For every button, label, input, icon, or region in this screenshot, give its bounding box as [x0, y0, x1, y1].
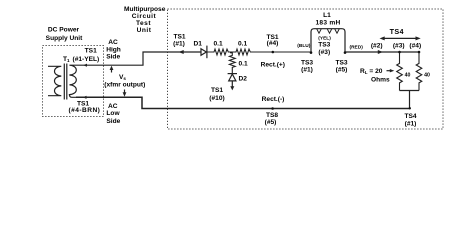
svg-text:0.1: 0.1: [214, 41, 223, 48]
svg-text:Unit: Unit: [137, 27, 152, 34]
svg-text:L1: L1: [323, 12, 331, 19]
svg-text:AC: AC: [108, 103, 118, 110]
svg-text:Rect.(-): Rect.(-): [262, 96, 285, 103]
svg-text:(YEL): (YEL): [318, 36, 331, 42]
svg-text:(#3): (#3): [393, 43, 405, 50]
svg-text:Ohms: Ohms: [371, 76, 390, 83]
svg-text:(RED): (RED): [350, 44, 364, 50]
svg-text:(#5): (#5): [336, 67, 348, 74]
svg-text:DC Power: DC Power: [48, 27, 80, 34]
svg-text:AC: AC: [108, 39, 118, 46]
svg-text:TS3: TS3: [301, 59, 313, 66]
svg-text:Side: Side: [106, 118, 120, 125]
svg-text:TS4: TS4: [390, 27, 404, 36]
svg-text:TS4: TS4: [404, 113, 416, 120]
svg-text:TS8: TS8: [266, 112, 278, 119]
svg-text:Low: Low: [106, 110, 120, 117]
svg-text:(BLU): (BLU): [297, 43, 310, 49]
svg-text:(#1): (#1): [405, 121, 417, 128]
svg-text:(#1): (#1): [173, 40, 185, 47]
svg-text:Supply Unit: Supply Unit: [46, 35, 83, 42]
svg-text:(#4): (#4): [267, 40, 279, 47]
svg-text:Vs: Vs: [119, 74, 126, 81]
svg-text:Rect.(+): Rect.(+): [261, 62, 285, 69]
svg-text:Side: Side: [106, 54, 120, 61]
svg-text:(#4): (#4): [409, 43, 421, 50]
svg-text:0.1: 0.1: [238, 41, 247, 48]
svg-text:(#3): (#3): [318, 49, 330, 56]
svg-text:D1: D1: [194, 40, 203, 47]
svg-text:(#10): (#10): [209, 95, 224, 102]
svg-text:0.1: 0.1: [239, 60, 248, 67]
svg-text:TS1: TS1: [85, 48, 97, 55]
svg-text:(#1-YEL): (#1-YEL): [73, 56, 100, 63]
svg-text:TS3: TS3: [335, 59, 347, 66]
svg-text:TS1: TS1: [173, 33, 185, 40]
svg-text:RL = 20: RL = 20: [360, 68, 383, 75]
svg-text:Multipurpose: Multipurpose: [124, 6, 166, 13]
svg-text:T1: T1: [63, 56, 70, 63]
svg-text:TS3: TS3: [318, 42, 330, 49]
svg-text:(#2): (#2): [371, 43, 383, 50]
svg-text:TS1: TS1: [211, 87, 223, 94]
svg-text:(#5): (#5): [265, 119, 277, 126]
svg-text:40: 40: [424, 72, 430, 78]
svg-text:Test: Test: [136, 20, 151, 27]
svg-text:High: High: [106, 46, 121, 53]
svg-text:(#1): (#1): [301, 67, 313, 74]
svg-text:183 mH: 183 mH: [316, 19, 341, 26]
svg-text:(xfmr output): (xfmr output): [104, 81, 145, 88]
svg-text:D2: D2: [239, 76, 248, 83]
svg-text:(#4-BRN): (#4-BRN): [69, 107, 101, 114]
svg-text:40: 40: [405, 72, 411, 78]
